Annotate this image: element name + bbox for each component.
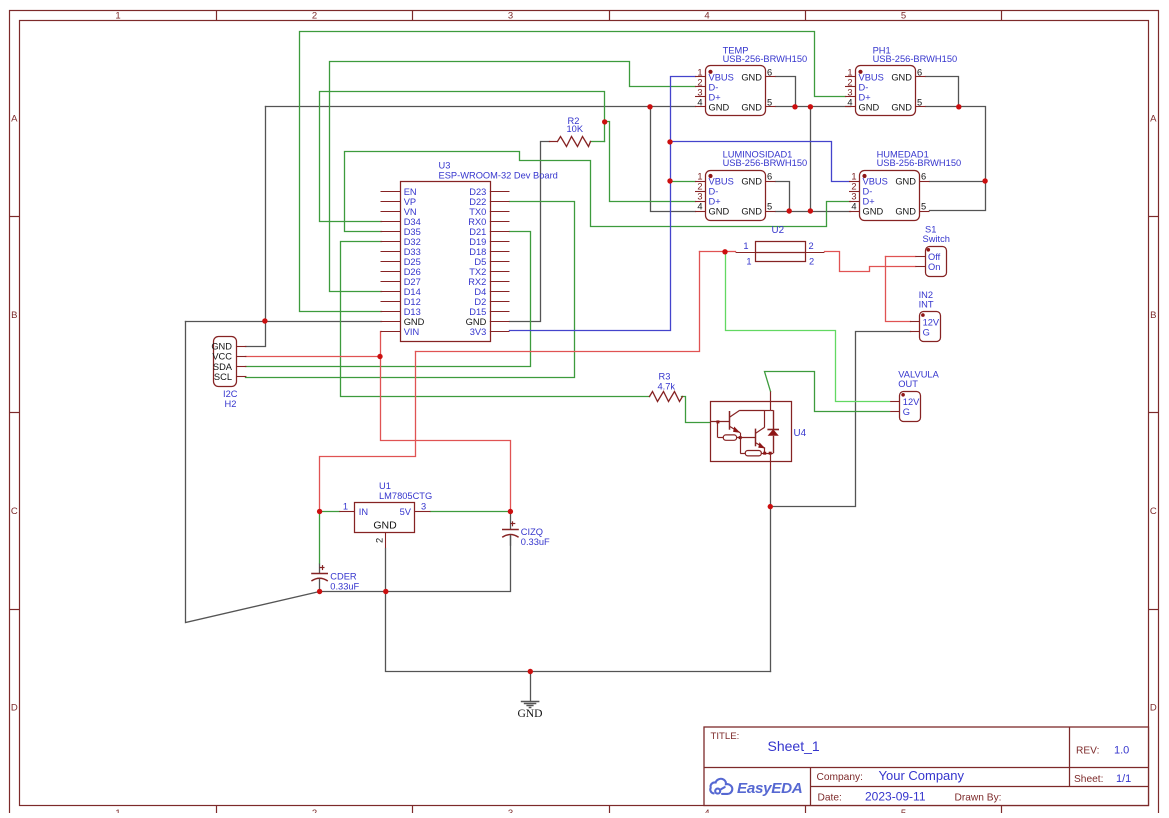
svg-text:VBUS: VBUS [859,72,884,82]
svg-text:A: A [1150,113,1157,124]
svg-text:1: 1 [115,11,120,22]
svg-text:INT: INT [919,299,934,309]
svg-text:D15: D15 [469,307,486,317]
svg-text:4: 4 [697,97,702,107]
svg-text:D4: D4 [474,287,486,297]
svg-text:5: 5 [917,97,922,107]
svg-text:SDA: SDA [213,362,233,372]
svg-text:VP: VP [404,197,416,207]
svg-text:GND: GND [741,207,762,217]
svg-text:VBUS: VBUS [709,72,734,82]
svg-text:CIZQ: CIZQ [521,527,543,537]
svg-text:GND: GND [895,207,916,217]
svg-text:USB-256-BRWH150: USB-256-BRWH150 [877,158,962,168]
svg-text:GND: GND [741,72,762,82]
svg-text:USB-256-BRWH150: USB-256-BRWH150 [723,54,808,64]
svg-text:VBUS: VBUS [863,177,888,187]
svg-text:IN2: IN2 [919,290,933,300]
svg-text:D+: D+ [709,92,721,102]
svg-text:B: B [1150,310,1156,321]
svg-text:D+: D+ [709,197,721,207]
svg-text:3: 3 [508,11,513,22]
svg-text:D25: D25 [404,257,421,267]
svg-text:GND: GND [863,207,884,217]
svg-text:2: 2 [697,77,702,87]
svg-text:0.33uF: 0.33uF [330,582,359,592]
svg-text:6: 6 [921,172,926,182]
svg-text:VCC: VCC [212,352,232,362]
svg-text:G: G [923,327,930,337]
svg-text:D12: D12 [404,297,421,307]
svg-text:1/1: 1/1 [1116,773,1131,785]
svg-text:D18: D18 [469,247,486,257]
svg-text:5: 5 [901,808,906,813]
svg-text:1.0: 1.0 [1114,745,1129,757]
svg-text:D34: D34 [404,217,421,227]
svg-text:0.33uF: 0.33uF [521,537,550,547]
svg-text:1: 1 [697,172,702,182]
svg-text:RX2: RX2 [468,277,486,287]
svg-text:REV:: REV: [1076,746,1099,757]
svg-text:U1: U1 [379,481,391,491]
svg-text:TX2: TX2 [469,267,486,277]
svg-text:C: C [1150,506,1157,517]
svg-text:D19: D19 [469,237,486,247]
svg-text:D32: D32 [404,237,421,247]
svg-text:TX0: TX0 [469,207,486,217]
svg-text:VN: VN [404,207,417,217]
svg-text:D14: D14 [404,287,421,297]
svg-text:Your Company: Your Company [879,768,965,783]
svg-text:3: 3 [508,808,513,813]
svg-text:4: 4 [697,202,702,212]
svg-text:D35: D35 [404,227,421,237]
svg-text:D26: D26 [404,267,421,277]
svg-text:ESP-WROOM-32 Dev Board: ESP-WROOM-32 Dev Board [439,171,558,181]
svg-text:2: 2 [697,182,702,192]
svg-text:12V: 12V [923,317,940,327]
svg-text:U3: U3 [439,161,451,171]
svg-text:Date:: Date: [818,793,842,804]
svg-text:GND: GND [741,177,762,187]
svg-text:VALVULA: VALVULA [898,370,939,380]
svg-text:1: 1 [743,241,748,251]
svg-text:5: 5 [767,202,772,212]
svg-text:GND: GND [891,72,912,82]
svg-text:VIN: VIN [404,327,420,337]
svg-text:OUT: OUT [898,379,918,389]
svg-text:U4: U4 [794,428,807,439]
svg-text:2: 2 [312,808,317,813]
svg-text:GND: GND [709,102,730,112]
svg-text:G: G [903,407,910,417]
svg-text:VBUS: VBUS [709,177,734,187]
svg-text:A: A [11,113,18,124]
svg-text:1: 1 [343,502,348,512]
svg-text:GND: GND [741,102,762,112]
svg-text:USB-256-BRWH150: USB-256-BRWH150 [723,158,808,168]
svg-text:Drawn By:: Drawn By: [955,793,1002,804]
svg-text:3: 3 [421,502,426,512]
svg-text:LM7805CTG: LM7805CTG [379,491,432,501]
svg-text:D-: D- [709,187,719,197]
svg-text:D23: D23 [469,187,486,197]
svg-text:D: D [11,702,18,713]
svg-text:GND: GND [517,707,542,720]
svg-text:TITLE:: TITLE: [711,731,740,742]
svg-text:1: 1 [851,172,856,182]
svg-text:D5: D5 [474,257,486,267]
svg-text:12V: 12V [903,397,920,407]
svg-text:D27: D27 [404,277,421,287]
svg-text:CDER: CDER [330,572,357,582]
svg-text:10K: 10K [567,124,584,134]
svg-text:U2: U2 [772,225,785,236]
svg-text:5V: 5V [400,507,412,517]
svg-text:Off: Off [928,252,941,262]
svg-text:3V3: 3V3 [470,327,487,337]
svg-text:D13: D13 [404,307,421,317]
svg-text:D+: D+ [863,197,875,207]
svg-text:GND: GND [466,317,487,327]
svg-text:SCL: SCL [214,372,232,382]
svg-text:R3: R3 [659,372,671,382]
svg-text:6: 6 [917,67,922,77]
svg-text:2023-09-11: 2023-09-11 [865,790,926,804]
svg-text:2: 2 [375,538,385,543]
svg-text:H2: H2 [225,399,237,409]
svg-text:2: 2 [809,257,814,267]
svg-text:B: B [11,310,17,321]
svg-text:1: 1 [697,67,702,77]
svg-text:EasyEDA: EasyEDA [737,780,802,797]
svg-text:6: 6 [767,172,772,182]
svg-text:D: D [1150,702,1157,713]
svg-text:GND: GND [859,102,880,112]
svg-text:D-: D- [863,187,873,197]
svg-text:5: 5 [921,202,926,212]
svg-text:D22: D22 [469,197,486,207]
svg-text:2: 2 [312,11,317,22]
svg-text:2: 2 [851,182,856,192]
svg-text:GND: GND [373,520,397,532]
svg-text:Switch: Switch [923,234,950,244]
svg-text:D21: D21 [469,227,486,237]
svg-text:D-: D- [859,82,869,92]
svg-text:5: 5 [767,97,772,107]
svg-text:GND: GND [891,102,912,112]
svg-text:4: 4 [847,97,852,107]
svg-text:S1: S1 [925,225,936,235]
svg-text:4.7k: 4.7k [658,382,676,392]
svg-text:3: 3 [697,87,702,97]
svg-text:GND: GND [211,342,232,352]
svg-text:EN: EN [404,187,417,197]
svg-text:1: 1 [746,257,751,267]
svg-text:Company:: Company: [817,772,863,783]
svg-text:5: 5 [901,11,906,22]
svg-text:C: C [11,506,18,517]
svg-text:1: 1 [847,67,852,77]
svg-text:3: 3 [697,192,702,202]
svg-text:2: 2 [809,241,814,251]
svg-text:1: 1 [115,808,120,813]
svg-text:D+: D+ [859,92,871,102]
svg-text:D-: D- [709,82,719,92]
svg-text:4: 4 [851,202,856,212]
svg-text:Sheet:: Sheet: [1074,774,1103,785]
svg-text:4: 4 [704,11,709,22]
svg-text:I2C: I2C [223,389,238,399]
svg-text:USB-256-BRWH150: USB-256-BRWH150 [873,54,958,64]
svg-text:GND: GND [404,317,425,327]
svg-text:Sheet_1: Sheet_1 [768,738,820,754]
svg-text:2: 2 [847,77,852,87]
svg-text:6: 6 [767,67,772,77]
svg-text:IN: IN [359,507,368,517]
svg-text:3: 3 [847,87,852,97]
svg-text:RX0: RX0 [468,217,486,227]
svg-text:On: On [928,262,940,272]
svg-text:3: 3 [851,192,856,202]
svg-text:4: 4 [704,808,709,813]
svg-text:D2: D2 [474,297,486,307]
svg-text:GND: GND [895,177,916,187]
svg-text:GND: GND [709,207,730,217]
svg-text:D33: D33 [404,247,421,257]
